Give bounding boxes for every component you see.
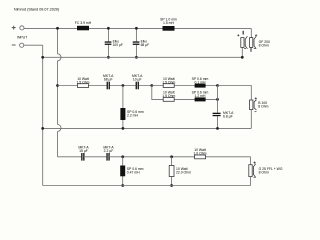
- capacitor C1 plates: [105, 41, 112, 44]
- node shunt C bottom: [216, 127, 219, 130]
- svg-text:100 µF: 100 µF: [113, 43, 123, 47]
- wire: vertical B lower segment to tweeter corner: [57, 132, 59, 157]
- wire: vertical B middle segment: [57, 61, 59, 125]
- svg-text:2.2 µF: 2.2 µF: [104, 149, 114, 153]
- capacitor C2 plates: [133, 41, 140, 44]
- wire: shunt cap branch x=217.5: [217, 86, 219, 129]
- wire hop: B over midrange return rail: [58, 125, 62, 132]
- speaker LS1 minus mark coil2: [254, 47, 256, 49]
- resistor R1 10 Watt 1.5 Ohm (midrange series): [76, 77, 89, 88]
- speaker LS3 minus mark: [254, 176, 256, 178]
- resistor R3 10 Watt 1.5 Ohm (lower branch): [162, 91, 175, 102]
- resistor R2 10 Watt 1.5 Ohm (upper branch): [162, 77, 175, 88]
- svg-text:FC 3.9 mH: FC 3.9 mH: [75, 21, 92, 25]
- inductor L3 SP 0.6 mm 0.1 mH (upper branch): [192, 77, 209, 88]
- inductor L6 body: [120, 166, 125, 177]
- wire: upper branch y=85.5: [152, 85, 218, 87]
- speaker LS2 minus mark: [255, 111, 257, 113]
- speaker LS1 minus mark coil1: [244, 47, 246, 49]
- wire: tweeter feed drop: [250, 157, 252, 165]
- svg-text:6.8 µF: 6.8 µF: [223, 115, 233, 119]
- terminal + circle: [20, 26, 24, 30]
- inductor L5 body: [120, 108, 125, 120]
- node: parallel join lower right: [216, 98, 219, 101]
- wire: midrange output to speaker: [218, 86, 252, 101]
- speaker LS1 plus mark coil1: [237, 34, 239, 36]
- wire: vertical A (return bus): [42, 45, 44, 185]
- node C2 top: [135, 27, 138, 30]
- node: tweeter shunt L tap: [121, 155, 124, 158]
- wire: minus lead to vertical A: [24, 44, 43, 46]
- capacitor C4 MKT-A 10 µF: [132, 74, 143, 89]
- inductor L2 SP 1.0 mm 1.5 mH: [160, 17, 177, 30]
- svg-text:68 µF: 68 µF: [104, 78, 113, 82]
- svg-text:8 Ohm: 8 Ohm: [259, 43, 269, 47]
- capacitor C6 MKT-A 15 µF: [78, 146, 89, 161]
- resistor R4 shunt 10 Watt 22.0 Ohm branch wire: [171, 157, 173, 186]
- node C1 bottom: [107, 56, 110, 59]
- wire: tweeter return drop: [250, 177, 252, 186]
- wire: woofer return drop: [241, 47, 243, 57]
- speaker LS1 woofer GF 200 coil 2: [250, 36, 257, 52]
- speaker LS3 plus mark: [254, 162, 256, 164]
- wire: midrange return rail y=128: [43, 127, 252, 129]
- capacitor C1 Elko 100 µF branch wire: [107, 28, 109, 57]
- inductor L5 shunt SP 0.6 mm 3.3 mH branch wire: [122, 86, 124, 129]
- svg-text:0.47 mH: 0.47 mH: [127, 171, 140, 175]
- node: midrange tap on B: [56, 84, 59, 87]
- wire: midrange feed line y=85.5: [58, 85, 152, 87]
- svg-text:15 µF: 15 µF: [79, 149, 88, 153]
- svg-text:8 Ohm: 8 Ohm: [258, 105, 268, 109]
- inductor L6 shunt SP 0.6 mm 0.47 mH branch wire: [122, 157, 124, 186]
- node C1 top: [107, 27, 110, 30]
- node: L6 bottom: [121, 184, 124, 187]
- terminal + (plus sign): [12, 26, 16, 30]
- svg-text:8 Ohm: 8 Ohm: [259, 171, 269, 175]
- wire hop: B over woofer return rail: [58, 54, 62, 61]
- wire: top rail from + to woofer corner: [24, 27, 251, 29]
- speaker LS2 plus mark: [255, 97, 257, 99]
- resistor R5 series 10 Watt 1.0 Ohm: [193, 148, 206, 159]
- wire: woofer return rail y=57.3: [43, 56, 243, 58]
- node: parallel split left: [150, 84, 153, 87]
- terminal - (minus sign): [12, 44, 16, 46]
- node woofer return: [241, 56, 244, 59]
- speaker LS3 tweeter G 25 FFL: [249, 164, 256, 178]
- capacitor C5 MKT-A 6.8 µF plates: [213, 113, 221, 117]
- speaker LS1 woofer GF 200 coil 1: [241, 31, 248, 49]
- capacitor C3 MKT-A 68 µF: [103, 74, 114, 89]
- resistor R4 body: [169, 166, 174, 177]
- capacitor C7 MKT-A 2.2 µF: [103, 146, 114, 161]
- node: parallel join upper right: [216, 84, 219, 87]
- wire: woofer feed drop: [250, 28, 252, 37]
- svg-text:2.2 mH: 2.2 mH: [127, 114, 138, 118]
- svg-text:68 µF: 68 µF: [141, 43, 150, 47]
- capacitor C2 Elko 68 µF branch wire: [135, 28, 137, 57]
- node: tweeter shunt R tap: [170, 155, 173, 158]
- wire: tweeter feed line y=156.8: [58, 156, 251, 158]
- wire: vertical B (signal bus) upper segment: [57, 28, 59, 53]
- node: R4 bottom: [170, 184, 173, 187]
- svg-text:Nimrod (Stand 09.07.2020): Nimrod (Stand 09.07.2020): [14, 8, 60, 12]
- wire: midrange return drop: [250, 110, 252, 129]
- inductor L4 SP 0.6 mm 1.2 mH (lower branch): [192, 91, 209, 102]
- node rail on A y=128: [41, 127, 44, 130]
- speaker LS2 midrange B 100: [250, 100, 257, 110]
- node shunt L bottom: [122, 127, 125, 130]
- terminal - circle: [20, 43, 24, 47]
- svg-text:10 µF: 10 µF: [133, 78, 142, 82]
- wire: tweeter return rail y=185.5: [43, 185, 251, 187]
- wire: lower branch drop and run y=99: [152, 86, 218, 100]
- node: shunt inductor tap: [122, 84, 125, 87]
- node: B taps top rail: [56, 27, 59, 30]
- node rail on A: [41, 56, 44, 59]
- svg-text:INPUT: INPUT: [17, 36, 27, 40]
- node C2 bottom: [135, 56, 138, 59]
- svg-text:22.0 Ohm: 22.0 Ohm: [176, 171, 191, 175]
- speaker LS1 plus mark coil2: [255, 34, 257, 36]
- inductor L1 FC 3.9 mH: [75, 21, 92, 30]
- svg-text:1.5 mH: 1.5 mH: [163, 21, 174, 25]
